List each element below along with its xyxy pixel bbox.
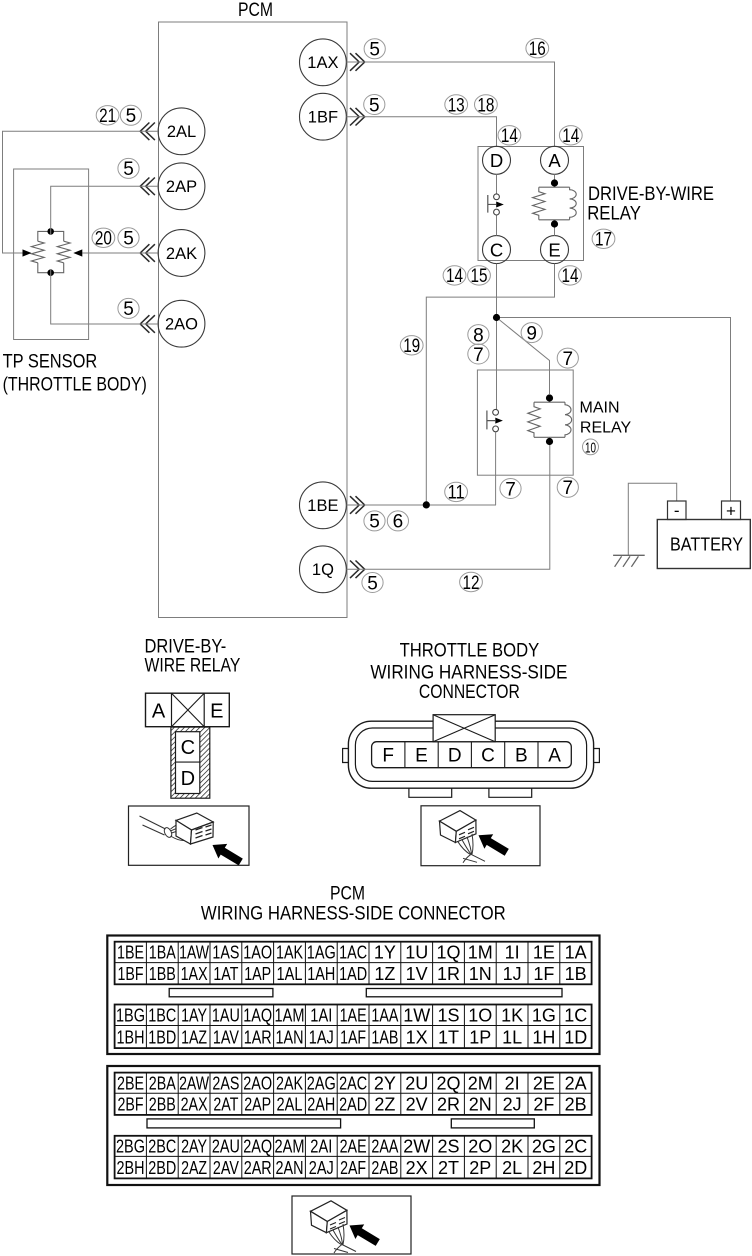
svg-text:D: D (181, 768, 195, 790)
svg-text:E: E (210, 701, 223, 723)
svg-text:1AY: 1AY (181, 1006, 207, 1026)
main relay K2 box (477, 370, 573, 475)
svg-text:2BA: 2BA (149, 1073, 176, 1093)
svg-text:2U: 2U (405, 1073, 428, 1093)
svg-text:18: 18 (477, 95, 494, 116)
svg-text:1U: 1U (405, 943, 428, 963)
svg-text:C: C (490, 239, 503, 260)
svg-text:1AL: 1AL (277, 964, 303, 984)
node 1BE/E junction (423, 501, 430, 508)
pin 2AO (158, 300, 205, 347)
svg-text:1BE: 1BE (307, 497, 338, 515)
relay K1 coil (539, 183, 570, 224)
potentiometer resistor R1 (left) (38, 231, 51, 272)
svg-text:E: E (548, 239, 560, 260)
connector arrow 2AK (140, 244, 155, 262)
wire number 21 (96, 106, 119, 125)
svg-text:RELAY: RELAY (580, 419, 632, 436)
pin 2AK (158, 230, 205, 277)
svg-text:A: A (548, 150, 561, 171)
svg-text:TP SENSOR: TP SENSOR (3, 351, 98, 372)
svg-text:2AV: 2AV (213, 1158, 239, 1178)
svg-text:2M: 2M (468, 1073, 493, 1093)
svg-text:14: 14 (501, 126, 518, 147)
part number 17 (592, 229, 615, 248)
svg-text:2X: 2X (406, 1158, 428, 1178)
wire number 5 (1AX) (364, 39, 385, 59)
svg-text:2BD: 2BD (148, 1158, 176, 1178)
svg-text:2AI: 2AI (310, 1137, 332, 1157)
svg-text:1M: 1M (468, 943, 493, 963)
wire battery minus to ground (628, 483, 676, 555)
svg-text:1AA: 1AA (371, 1006, 398, 1026)
wire switch to C (496, 215, 498, 236)
svg-text:1J: 1J (503, 964, 522, 984)
svg-text:12: 12 (463, 573, 480, 594)
pin number 14 (A) (559, 126, 582, 145)
svg-text:THROTTLE BODY: THROTTLE BODY (400, 641, 540, 662)
svg-text:B: B (515, 746, 528, 767)
wire number 9 (521, 323, 542, 343)
svg-text:1V: 1V (406, 964, 428, 984)
throttle body connector photo box (421, 806, 540, 866)
svg-text:1AX: 1AX (181, 964, 208, 984)
svg-text:2BB: 2BB (149, 1095, 176, 1115)
svg-text:1A: 1A (565, 943, 587, 963)
svg-text:1AF: 1AF (340, 1027, 366, 1047)
wire number 5 (2AK) (118, 228, 139, 248)
svg-text:5: 5 (369, 95, 380, 116)
svg-text:MAIN: MAIN (580, 400, 620, 417)
svg-text:1BF: 1BF (308, 109, 338, 127)
svg-text:1F: 1F (533, 964, 554, 984)
svg-text:9: 9 (526, 323, 537, 344)
relay pin E (541, 236, 569, 264)
PCM connector table 1 (107, 936, 599, 1055)
svg-text:C: C (481, 746, 495, 767)
svg-text:1AI: 1AI (310, 1006, 332, 1026)
svg-text:1AB: 1AB (371, 1027, 398, 1047)
svg-text:F: F (382, 746, 394, 767)
svg-text:8: 8 (473, 325, 484, 346)
part number 10 (583, 439, 599, 455)
wire number 16 (526, 39, 549, 58)
throttle connector keyway X box (433, 715, 495, 742)
svg-text:PCM: PCM (238, 0, 273, 21)
svg-text:(THROTTLE BODY): (THROTTLE BODY) (3, 375, 147, 396)
potentiometer resistor R2 (right) (51, 231, 64, 272)
pin 1BF (300, 93, 347, 140)
svg-text:1BA: 1BA (149, 943, 176, 963)
relay pin D (483, 146, 511, 174)
wire node to battery plus (497, 318, 731, 502)
wire 2AL to TP wiper left (3, 131, 159, 253)
connector arrow 1AX (350, 53, 365, 71)
svg-text:1AQ: 1AQ (243, 1006, 272, 1026)
svg-text:2BG: 2BG (116, 1137, 145, 1157)
battery plus terminal (722, 501, 741, 520)
wire number 6 (387, 511, 408, 531)
svg-text:2AR: 2AR (244, 1158, 272, 1178)
table1 rows 1BG/1BH grid (115, 1005, 592, 1049)
svg-text:1X: 1X (406, 1027, 428, 1047)
pin 2AL (158, 108, 205, 155)
svg-text:1BE: 1BE (117, 943, 144, 963)
svg-text:1W: 1W (403, 1006, 430, 1026)
svg-text:6: 6 (393, 512, 404, 533)
svg-text:1I: 1I (505, 943, 520, 963)
svg-text:1AR: 1AR (244, 1027, 272, 1047)
svg-text:2AS: 2AS (212, 1073, 239, 1093)
svg-text:2AU: 2AU (212, 1137, 240, 1157)
wire 2AO to TP bottom node (51, 269, 158, 324)
wire switch to 1BE net (495, 432, 497, 505)
table2 keying slot right (451, 1119, 534, 1128)
svg-text:1AE: 1AE (340, 1006, 367, 1026)
wire number 7 (below switch) (500, 479, 521, 499)
table1 keying slot left (169, 989, 273, 997)
svg-text:1BC: 1BC (148, 1006, 176, 1026)
connector arrow 2AO (140, 315, 155, 333)
wire number 7 (below coil) (557, 477, 578, 497)
svg-text:2E: 2E (533, 1073, 555, 1093)
svg-text:2J: 2J (503, 1095, 522, 1115)
connector arrow 2AP (140, 178, 155, 196)
svg-text:2O: 2O (468, 1137, 492, 1157)
svg-text:A: A (548, 746, 561, 767)
svg-text:2AP: 2AP (244, 1095, 271, 1115)
svg-text:2AJ: 2AJ (309, 1158, 334, 1178)
svg-text:2AP: 2AP (166, 178, 197, 196)
svg-text:2AO: 2AO (243, 1073, 272, 1093)
wire number 20 (92, 228, 115, 247)
node bottom of TP resistors (47, 269, 54, 276)
wire number 5 (1Q) (362, 573, 383, 593)
pin 1Q (300, 546, 347, 593)
pin number 14 (C) (443, 266, 466, 285)
svg-text:2AK: 2AK (166, 245, 197, 263)
wire number 5 (1BE) (364, 511, 385, 531)
svg-text:2AX: 2AX (181, 1095, 208, 1115)
svg-text:-: - (674, 501, 680, 520)
wire number 5 (1BF) (364, 95, 385, 115)
svg-text:2AL: 2AL (277, 1095, 303, 1115)
svg-text:WIRING HARNESS-SIDE CONNECTOR: WIRING HARNESS-SIDE CONNECTOR (201, 904, 506, 925)
svg-text:2Q: 2Q (436, 1073, 460, 1093)
svg-text:1H: 1H (532, 1027, 555, 1047)
throttle connector pin row (372, 742, 572, 768)
svg-text:1S: 1S (437, 1006, 459, 1026)
svg-text:1P: 1P (469, 1027, 491, 1047)
svg-text:1O: 1O (468, 1006, 492, 1026)
wire coil to E (554, 224, 556, 236)
pin 2AP (158, 163, 205, 210)
wire node down to main relay switch (496, 318, 498, 410)
svg-text:1C: 1C (564, 1006, 587, 1026)
wire number 7 (coil feed) (557, 348, 578, 368)
svg-text:CONNECTOR: CONNECTOR (419, 682, 520, 703)
svg-text:1BD: 1BD (148, 1027, 176, 1047)
pin 1BE (300, 482, 347, 529)
throttle body connector photo connector (440, 811, 509, 863)
svg-text:2B: 2B (565, 1095, 587, 1115)
svg-text:5: 5 (369, 40, 380, 61)
PCM connector photo connector (311, 1201, 380, 1253)
svg-text:5: 5 (126, 106, 137, 127)
svg-text:2H: 2H (532, 1158, 555, 1178)
wire number 18 (475, 95, 498, 114)
svg-text:E: E (415, 746, 428, 767)
svg-text:1AP: 1AP (244, 964, 271, 984)
svg-text:20: 20 (95, 229, 112, 250)
svg-text:2AZ: 2AZ (181, 1158, 207, 1178)
relay connector pin row (146, 693, 230, 727)
svg-text:BATTERY: BATTERY (670, 535, 743, 555)
ground symbol (613, 555, 645, 567)
pin 1AX (300, 39, 347, 86)
throttle connector bottom tabs (409, 788, 532, 797)
svg-text:5: 5 (123, 159, 134, 180)
svg-text:1BG: 1BG (116, 1006, 145, 1026)
connector arrow 1BF (350, 108, 365, 126)
PCM connector photo box (292, 1196, 411, 1254)
svg-text:DRIVE-BY-WIRE: DRIVE-BY-WIRE (588, 184, 714, 205)
svg-text:1AJ: 1AJ (309, 1027, 334, 1047)
wire A to coil (554, 174, 556, 183)
svg-text:2V: 2V (406, 1095, 428, 1115)
svg-text:2AH: 2AH (307, 1095, 335, 1115)
svg-text:7: 7 (473, 345, 484, 366)
pin number 15 (468, 266, 491, 285)
relay pin C (483, 236, 511, 264)
relay pin A (541, 146, 569, 174)
svg-text:2AE: 2AE (340, 1137, 367, 1157)
wire 2AP to TP top node (51, 186, 158, 235)
svg-text:16: 16 (529, 39, 546, 60)
svg-text:2D: 2D (564, 1158, 587, 1178)
svg-text:21: 21 (99, 106, 116, 127)
svg-text:WIRE RELAY: WIRE RELAY (145, 655, 241, 676)
table1 keying slot right (366, 989, 562, 997)
table2 keying slot left (147, 1119, 341, 1128)
svg-text:7: 7 (505, 479, 516, 500)
svg-text:1AN: 1AN (276, 1027, 304, 1047)
wire node diagonal to main relay coil (497, 318, 550, 395)
svg-text:1Q: 1Q (436, 943, 460, 963)
svg-text:2BH: 2BH (117, 1158, 145, 1178)
svg-text:2AD: 2AD (339, 1095, 367, 1115)
svg-text:1AD: 1AD (339, 964, 367, 984)
svg-text:C: C (181, 737, 195, 759)
relay K2 coil (534, 398, 565, 442)
drive-by-wire relay connector photo box (129, 806, 250, 865)
drive-by-wire relay K1 box (478, 147, 584, 261)
svg-text:2T: 2T (438, 1158, 459, 1178)
svg-text:2BC: 2BC (148, 1137, 176, 1157)
svg-text:2K: 2K (501, 1137, 523, 1157)
svg-text:1BF: 1BF (118, 964, 144, 984)
svg-text:2W: 2W (403, 1137, 430, 1157)
wire number 12 (460, 572, 483, 591)
svg-text:1AZ: 1AZ (181, 1027, 207, 1047)
svg-text:2Y: 2Y (374, 1073, 396, 1093)
svg-text:2AT: 2AT (213, 1095, 238, 1115)
wire number 19 (400, 336, 423, 355)
svg-text:2R: 2R (437, 1095, 460, 1115)
throttle connector outer shell (348, 721, 593, 788)
svg-text:14: 14 (562, 126, 579, 147)
svg-text:D: D (490, 150, 503, 171)
svg-text:PCM: PCM (330, 884, 365, 905)
svg-text:1AM: 1AM (275, 1006, 305, 1026)
connector arrow 1BE (350, 496, 365, 514)
svg-text:1AV: 1AV (213, 1027, 239, 1047)
wire 1AX to relay pin A (346, 62, 554, 146)
svg-text:1K: 1K (501, 1006, 523, 1026)
svg-text:1AK: 1AK (276, 943, 303, 963)
svg-text:2AF: 2AF (340, 1158, 366, 1178)
wire D to switch (496, 174, 498, 194)
svg-text:2AO: 2AO (165, 316, 198, 334)
svg-text:1R: 1R (437, 964, 460, 984)
svg-text:19: 19 (403, 336, 420, 357)
svg-text:1AU: 1AU (212, 1006, 240, 1026)
svg-text:RELAY: RELAY (587, 204, 641, 225)
wire number 5 (2AO) (118, 298, 139, 318)
TP sensor box (14, 169, 89, 340)
svg-text:2BF: 2BF (118, 1095, 144, 1115)
svg-text:2C: 2C (564, 1137, 587, 1157)
svg-text:14: 14 (562, 266, 579, 287)
svg-text:1E: 1E (533, 943, 555, 963)
svg-text:1AC: 1AC (339, 943, 367, 963)
table2 rows 2BE/2BF grid (115, 1073, 592, 1115)
svg-text:14: 14 (446, 266, 463, 287)
svg-text:2P: 2P (469, 1158, 491, 1178)
svg-text:1AW: 1AW (179, 943, 209, 963)
svg-text:2AN: 2AN (276, 1158, 304, 1178)
svg-text:2AC: 2AC (339, 1073, 367, 1093)
pin number 14 (D) (498, 126, 521, 145)
svg-text:2N: 2N (469, 1095, 492, 1115)
svg-text:2I: 2I (505, 1073, 520, 1093)
wire 2AK to TP wiper right (82, 252, 158, 254)
svg-text:1AT: 1AT (213, 964, 238, 984)
wire number 5 (2AP) (118, 158, 139, 178)
svg-text:17: 17 (595, 230, 612, 251)
relay connector keyway X (172, 693, 205, 727)
relay K1 switch (494, 194, 500, 200)
svg-text:2AY: 2AY (181, 1137, 207, 1157)
svg-text:2L: 2L (502, 1158, 522, 1178)
svg-text:1Q: 1Q (312, 561, 334, 579)
svg-text:7: 7 (563, 478, 574, 499)
svg-text:1AX: 1AX (307, 54, 338, 72)
svg-text:1BB: 1BB (149, 964, 176, 984)
PCM box U1 (159, 22, 348, 618)
svg-text:1AS: 1AS (212, 943, 239, 963)
svg-text:1L: 1L (502, 1027, 522, 1047)
svg-text:11: 11 (448, 483, 465, 504)
svg-text:1AG: 1AG (307, 943, 336, 963)
svg-text:1D: 1D (564, 1027, 587, 1047)
svg-text:2A: 2A (565, 1073, 587, 1093)
svg-text:1T: 1T (438, 1027, 459, 1047)
battery BT1 (657, 520, 750, 569)
svg-text:1N: 1N (469, 964, 492, 984)
connector arrow 1Q (350, 561, 365, 579)
svg-text:10: 10 (585, 439, 596, 456)
svg-text:1BH: 1BH (117, 1027, 145, 1047)
svg-text:2G: 2G (532, 1137, 556, 1157)
svg-text:5: 5 (367, 573, 378, 594)
svg-text:1AH: 1AH (307, 964, 335, 984)
svg-text:2AQ: 2AQ (243, 1137, 272, 1157)
table2 rows 2BG/2BH grid (115, 1136, 592, 1179)
svg-text:2F: 2F (533, 1095, 554, 1115)
svg-text:5: 5 (369, 512, 380, 533)
svg-text:2BE: 2BE (117, 1073, 144, 1093)
svg-text:2S: 2S (437, 1137, 459, 1157)
wire number 8 (468, 325, 489, 345)
svg-text:2Z: 2Z (374, 1095, 395, 1115)
wire C down to node (496, 264, 498, 318)
PCM connector table 2 (107, 1066, 599, 1185)
wire number 5 (2AL) (120, 105, 141, 125)
svg-text:1G: 1G (532, 1006, 556, 1026)
throttle connector side tabs (343, 749, 600, 763)
svg-text:WIRING HARNESS-SIDE: WIRING HARNESS-SIDE (370, 662, 567, 683)
wire number 13 (445, 95, 468, 114)
wire 1Q to main relay coil (346, 445, 549, 569)
node top of TP resistors (47, 228, 54, 235)
svg-text:1AO: 1AO (243, 943, 272, 963)
svg-text:1B: 1B (565, 964, 587, 984)
table1 rows 1BE/1BF grid (115, 942, 592, 985)
svg-text:2AK: 2AK (276, 1073, 303, 1093)
svg-text:2AG: 2AG (307, 1073, 336, 1093)
wire 1BF to relay pin D (346, 117, 496, 147)
svg-text:13: 13 (448, 95, 465, 116)
wire 1BE to main relay switch (346, 504, 496, 506)
svg-text:7: 7 (563, 349, 574, 370)
svg-text:D: D (448, 746, 462, 767)
svg-text:15: 15 (471, 266, 488, 287)
relay K2 switch (493, 409, 499, 415)
svg-text:5: 5 (123, 229, 134, 250)
svg-text:1Y: 1Y (374, 943, 396, 963)
svg-text:2AL: 2AL (167, 123, 196, 141)
wire number 11 (445, 482, 468, 501)
svg-text:1Z: 1Z (374, 964, 395, 984)
pin number 14 (E) (559, 266, 582, 285)
svg-text:2AM: 2AM (275, 1137, 305, 1157)
svg-text:A: A (152, 701, 166, 723)
connector arrow 2AL (140, 123, 155, 141)
svg-text:2AW: 2AW (179, 1073, 209, 1093)
svg-text:5: 5 (123, 299, 134, 320)
svg-text:2AA: 2AA (371, 1137, 398, 1157)
wire number 7 (switch feed) (468, 344, 489, 364)
battery minus terminal (668, 501, 687, 520)
wire E down to 1BE net (426, 264, 554, 505)
drive-by-wire relay connector photo connector (140, 813, 243, 865)
svg-text:2AB: 2AB (371, 1158, 398, 1178)
svg-text:+: + (726, 502, 736, 521)
node junction C/battery/main (493, 314, 500, 321)
